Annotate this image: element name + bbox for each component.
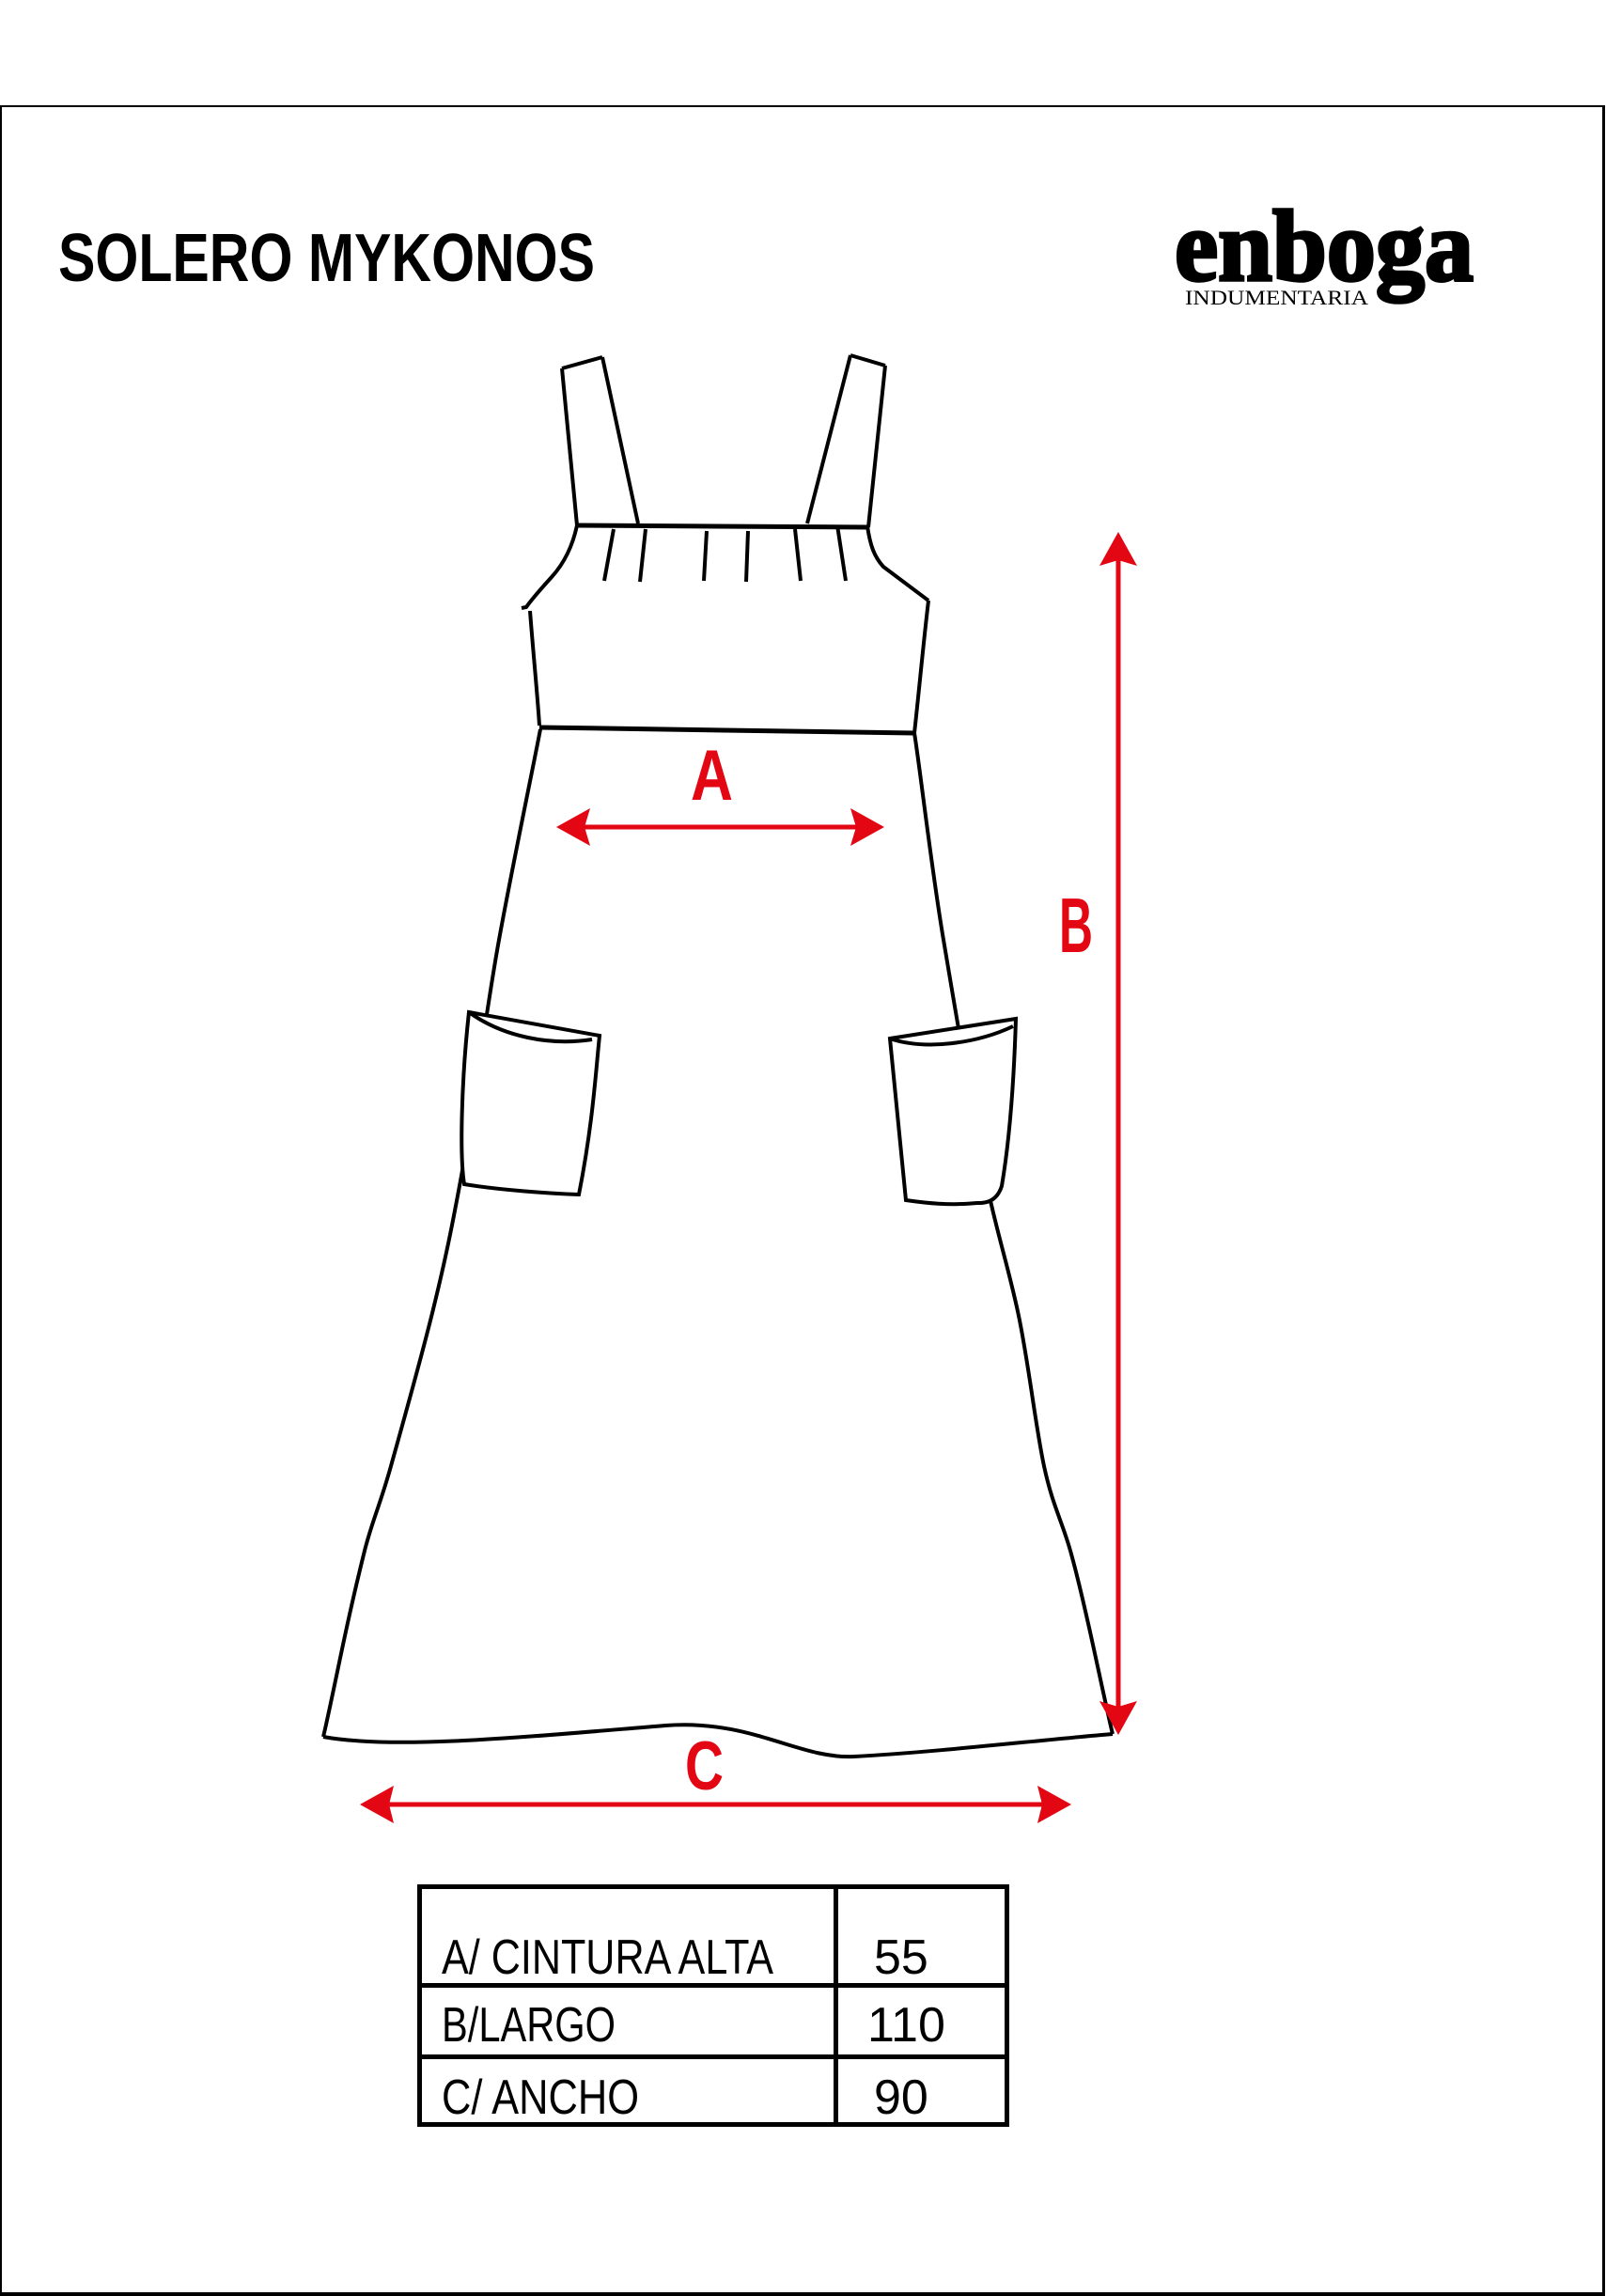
left bodice side seam <box>530 611 539 726</box>
gather line 3 <box>704 531 707 581</box>
size table <box>417 1884 1009 2127</box>
right armhole curve <box>867 526 928 601</box>
right strap inner edge <box>807 355 850 523</box>
hem wavy line <box>323 1725 1113 1757</box>
red measurement group <box>360 532 1137 1823</box>
table row divider 2 <box>422 2054 1005 2059</box>
right strap top edge <box>850 355 885 366</box>
gather line 5 <box>795 529 801 581</box>
left strap outer edge <box>562 368 577 525</box>
left pocket <box>461 1012 600 1195</box>
neckline <box>575 525 868 527</box>
A arrow <box>575 825 866 830</box>
right strap outer edge <box>868 366 885 527</box>
svg-text:SOLERO MYKONOS: SOLERO MYKONOS <box>58 221 595 296</box>
svg-text:B: B <box>1059 882 1093 969</box>
gather line 6 <box>837 525 846 581</box>
svg-text:A: A <box>691 736 733 816</box>
right pocket <box>890 1019 1016 1204</box>
C arrow <box>378 1803 1054 1807</box>
table vertical divider <box>834 1889 838 2122</box>
gather line 2 <box>640 529 646 582</box>
table row divider 1 <box>422 1983 1005 1988</box>
right bodice side seam <box>914 601 928 733</box>
right skirt seam <box>914 733 1113 1734</box>
left strap inner edge <box>602 357 638 523</box>
gather line 1 <box>604 529 614 581</box>
svg-text:C: C <box>685 1728 724 1804</box>
left strap top edge <box>562 357 602 368</box>
left skirt seam <box>323 729 540 1737</box>
svg-text:INDUMENTARIA: INDUMENTARIA <box>1185 286 1368 309</box>
gather line 4 <box>746 531 748 582</box>
left armhole curve <box>522 525 577 608</box>
B arrow <box>1116 554 1121 1715</box>
empire waist seam <box>539 727 914 733</box>
